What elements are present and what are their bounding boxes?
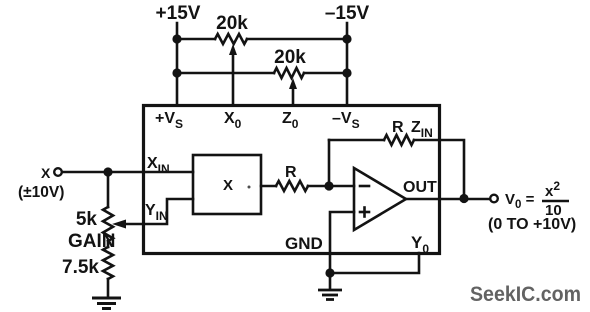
wire R5 to opamp inverting input — [308, 185, 354, 188]
potentiometer R2 20k element — [274, 68, 304, 78]
wire top rail right — [247, 38, 347, 41]
svg-text:GAIN: GAIN — [68, 231, 116, 252]
wire R1 wiper to X0 pin — [232, 53, 235, 105]
svg-text:GND: GND — [285, 234, 323, 253]
wire feedback top right — [414, 140, 464, 198]
svg-text:R: R — [285, 164, 297, 181]
resistor R4 7.5k element — [103, 247, 113, 279]
multiplier block X — [193, 155, 261, 214]
junction -15V/top rail — [342, 34, 351, 43]
junction -15V/bottom rail — [342, 68, 351, 77]
wire bottom rail left — [177, 72, 274, 75]
svg-text:R: R — [392, 119, 404, 136]
node +15V supply lead — [176, 23, 179, 105]
wire R2 wiper to Z0 pin — [292, 87, 295, 105]
junction summing node — [324, 181, 333, 190]
svg-text:–15V: –15V — [325, 3, 370, 24]
IC module U1 outline — [144, 106, 440, 254]
wire feedback top left — [329, 139, 384, 142]
terminal V0 output circle — [490, 195, 498, 203]
R1 wiper arrowhead — [229, 44, 237, 55]
resistor R5 R element — [276, 181, 308, 191]
wire multiplier out to R5 — [261, 185, 276, 188]
wire X node down to gain pot — [107, 172, 110, 207]
R2 wiper arrowhead — [289, 78, 297, 89]
wire feedback node up — [328, 140, 331, 186]
wire pot to R4 — [107, 241, 110, 247]
svg-text:X: X — [41, 165, 51, 181]
op-amp minus sign — [360, 185, 369, 188]
svg-text:5k: 5k — [76, 209, 98, 230]
wire bottom rail right — [304, 72, 347, 75]
terminal X input circle — [54, 168, 62, 176]
svg-text:7.5k: 7.5k — [62, 257, 99, 278]
op-amp U2 triangle — [354, 168, 406, 230]
ground symbol right — [318, 290, 342, 300]
wire top rail left — [177, 38, 215, 41]
junction +15V/bottom rail — [172, 68, 181, 77]
junction GND node — [325, 268, 334, 277]
junction X input node — [103, 167, 112, 176]
wire opamp noninverting input — [330, 212, 354, 273]
potentiometer R3 5k GAIN element — [103, 207, 113, 241]
wire YIN wiper line — [124, 199, 193, 224]
svg-text:20k: 20k — [274, 47, 306, 68]
scan speck — [248, 186, 251, 189]
wire R4 to ground — [107, 279, 110, 297]
svg-text:20k: 20k — [216, 13, 248, 34]
wire GND node to Y0 riser — [330, 253, 419, 273]
junction +15V/top rail — [172, 34, 181, 43]
svg-text:X: X — [223, 177, 233, 194]
svg-text:(±10V): (±10V) — [18, 184, 64, 201]
ground symbol left — [92, 298, 121, 309]
R3 wiper arrowhead — [112, 220, 126, 229]
svg-text:(0 TO +10V): (0 TO +10V) — [488, 216, 576, 233]
wire X input to multiplier XIN — [62, 171, 193, 174]
op-amp plus sign — [360, 211, 369, 214]
svg-text:OUT: OUT — [403, 179, 437, 196]
fraction bar — [542, 200, 569, 202]
potentiometer R1 20k element — [215, 34, 247, 44]
wire opamp output — [406, 198, 490, 201]
resistor R6 R ZIN element — [384, 135, 414, 145]
wire ground stub — [329, 273, 332, 289]
svg-text:SeekIC.com: SeekIC.com — [470, 282, 581, 306]
junction output/feedback — [459, 194, 468, 203]
node -15V supply lead — [346, 23, 349, 105]
svg-text:+15V: +15V — [156, 3, 201, 24]
